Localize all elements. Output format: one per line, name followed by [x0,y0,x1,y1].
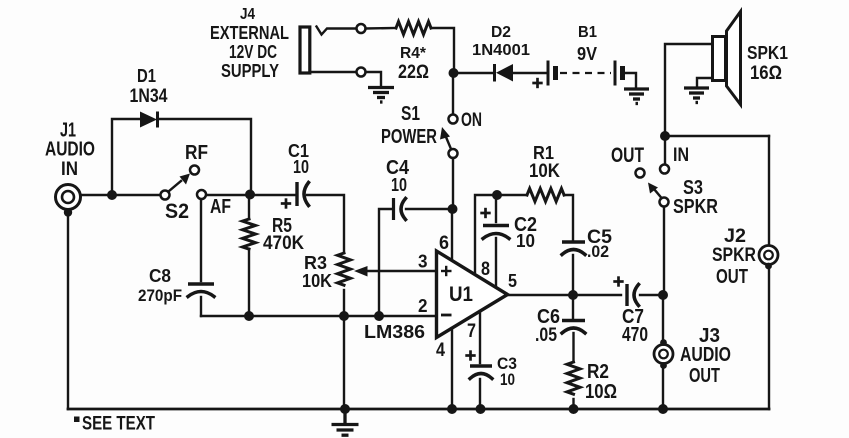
wire output junction up to S3 SPKR contact [663,206,665,295]
node R5 bottom junction [244,311,254,321]
wire R4 to supply junction [431,28,454,73]
wire D2 to B1 [513,72,546,74]
capacitor C3 [465,350,517,409]
ground (jack J4) [368,88,394,103]
svg-text:IN: IN [61,159,78,180]
svg-text:7: 7 [467,321,476,342]
wire R3 junction to ground rail [343,316,345,409]
switch S1 ON contact [449,115,458,124]
svg-text:D2: D2 [491,24,511,41]
svg-text:10K: 10K [529,161,560,182]
node R3 bottom junction [339,311,349,321]
diode D1 [130,65,168,128]
wire output junction down through J3 to rail [662,295,664,409]
capacitor C4 [386,157,410,220]
svg-text:S1: S1 [401,103,420,125]
wire tip terminal to R4 [366,27,397,30]
switch S2 arm [169,174,190,192]
pin 4 wire [451,328,453,409]
wire R1 to C5 branch [564,195,573,241]
audio in connector J1 [45,120,95,217]
svg-text:OUT: OUT [611,144,644,167]
wire C4 right to V+ node [406,208,450,210]
svg-text:AUDIO: AUDIO [680,344,731,366]
speaker SPK1 [713,12,789,105]
R3 wiper wire to pin 3 [354,266,436,277]
svg-text:9V: 9V [577,44,597,64]
capacitor C5 [562,227,612,295]
wire junction to S1 ON contact [452,77,454,114]
node V+ junction [448,204,458,214]
jack J4 sleeve terminal circle [357,68,366,77]
switch S3 arm [648,183,662,199]
svg-text:2: 2 [418,296,428,316]
switch S3 labels [611,144,718,218]
svg-text:16Ω: 16Ω [750,63,782,84]
ground (speaker) [684,88,709,103]
ground (main rail) [332,409,359,435]
switch S2 AF contact [197,190,206,199]
svg-text:4: 4 [436,340,445,361]
node C2 junction [492,190,502,200]
node D1 tap junction [107,190,117,200]
svg-text:OUT: OUT [716,266,748,288]
wire D1 to R5 junction [158,119,251,192]
node J3 rail junction [658,404,668,414]
node C3 rail junction [476,404,486,414]
jack J4 body [300,27,310,73]
pin 6 wire [451,213,453,260]
resistor R2 [567,361,617,409]
capacitor C2 [480,197,537,287]
svg-text:SUPPLY: SUPPLY [221,61,279,81]
diode D2 [472,24,530,82]
switch S2 RF contact [190,166,199,175]
ground rail [68,408,769,411]
switch S3 IN contact [660,165,669,174]
wire C1 to R3 branch [307,195,344,253]
switch S3 OUT contact [636,169,645,178]
resistor R1 [527,143,564,202]
node speaker junction [660,131,670,141]
V+ rail corner to pin 8 [475,195,527,272]
svg-text:J4: J4 [240,6,255,23]
wire junction to D2 [454,72,494,74]
wire J2 branch down to rail [768,136,770,409]
see text note [74,417,80,423]
op-amp U1 [364,251,508,342]
wire J1 down to ground rail [67,216,69,409]
svg-text:R1: R1 [533,143,554,163]
svg-text:5: 5 [508,271,517,291]
jack J4 labels [210,6,289,81]
switch S1 labels [381,103,482,148]
svg-text:10K: 10K [302,271,332,291]
speaker out connector J2 [712,226,778,288]
resistor R5 [243,195,305,316]
ground (battery B1) [624,89,649,104]
wire S1 pole down to V+ node [452,158,454,205]
pin 5 output wire [508,294,621,296]
svg-text:R2: R2 [587,361,609,383]
svg-text:S2: S2 [165,200,189,223]
svg-text:3: 3 [418,252,428,272]
audio out connector J3 [654,325,731,387]
switch S3 SPKR contact [660,198,669,207]
jack J4 sleeve contact wire [311,71,357,73]
node rail ground junction [340,404,350,414]
svg-text:1N4001: 1N4001 [472,42,530,59]
svg-text:SPK1: SPK1 [747,43,788,63]
svg-text:IN: IN [673,145,689,166]
capacitor C7 [613,276,648,346]
switch S2 labels [165,142,231,223]
svg-text:RF: RF [185,142,208,164]
svg-text:C8: C8 [149,266,171,286]
svg-text:6: 6 [439,233,449,254]
switch S1 arm [440,127,451,149]
wire junction up to speaker [665,44,712,136]
node R2 rail junction [569,404,579,414]
svg-text:10: 10 [516,231,535,251]
svg-text:270pF: 270pF [138,287,182,305]
svg-text:SEE TEXT: SEE TEXT [82,414,155,435]
node R5/D1 junction [245,190,255,200]
svg-text:D1: D1 [137,65,156,86]
svg-text:.05: .05 [535,325,557,346]
svg-text:R3: R3 [304,253,327,273]
svg-text:AF: AF [210,196,231,218]
pin 2 line [201,315,436,317]
svg-text:OUT: OUT [689,365,720,387]
wire B1 to ground [625,73,636,87]
switch S2 pole contact [161,191,170,200]
svg-text:470K: 470K [263,233,304,254]
wire J1 to S2 [81,194,160,196]
node C5/C6 junction [568,290,578,300]
wire sleeve to ground [366,72,382,86]
svg-text:10: 10 [391,175,407,195]
svg-text:U1: U1 [449,283,473,306]
node supply junction [449,68,459,78]
potentiometer R3 [302,253,351,316]
battery B1 [532,24,622,88]
switch S1 pole contact [449,149,458,158]
svg-text:POWER: POWER [381,126,437,148]
jack J4 tip terminal circle [357,24,366,33]
diode D1 branch wire up [112,119,140,195]
svg-text:R4*: R4* [400,45,427,62]
capacitor C8 [138,200,214,316]
svg-text:12V DC: 12V DC [229,42,277,62]
svg-text:J2: J2 [724,226,746,247]
wire junction right to J2 branch [665,135,769,137]
svg-text:B1: B1 [578,24,597,41]
svg-text:LM386: LM386 [364,322,425,342]
capacitor C1 [281,141,309,209]
svg-text:ON: ON [461,110,482,131]
node C4 bottom junction [374,311,384,321]
wire IN contact to speaker junction [664,141,666,164]
svg-text:.02: .02 [587,242,609,261]
svg-text:10: 10 [500,370,515,389]
capacitor C6 [535,295,585,362]
wire AF contact to C1 [208,194,295,196]
node output junction [658,290,668,300]
jack J4 tip contact wire [317,27,357,35]
svg-text:10Ω: 10Ω [585,381,617,403]
svg-text:10: 10 [293,157,309,177]
svg-text:AUDIO: AUDIO [45,139,95,161]
pin 7 wire [479,311,481,363]
svg-text:1N34: 1N34 [130,86,168,107]
wire C4 left leg down to pin2 line [379,209,391,314]
svg-text:470: 470 [622,324,648,346]
wire speaker to ground [697,78,712,87]
wire C7 to output junction [640,294,663,296]
svg-text:SPKR: SPKR [712,245,756,266]
svg-text:SPKR: SPKR [673,196,718,218]
svg-text:8: 8 [481,259,490,280]
resistor R4 [396,22,431,84]
svg-text:22Ω: 22Ω [398,62,429,83]
svg-text:EXTERNAL: EXTERNAL [210,23,289,43]
node pin4 rail junction [447,404,457,414]
